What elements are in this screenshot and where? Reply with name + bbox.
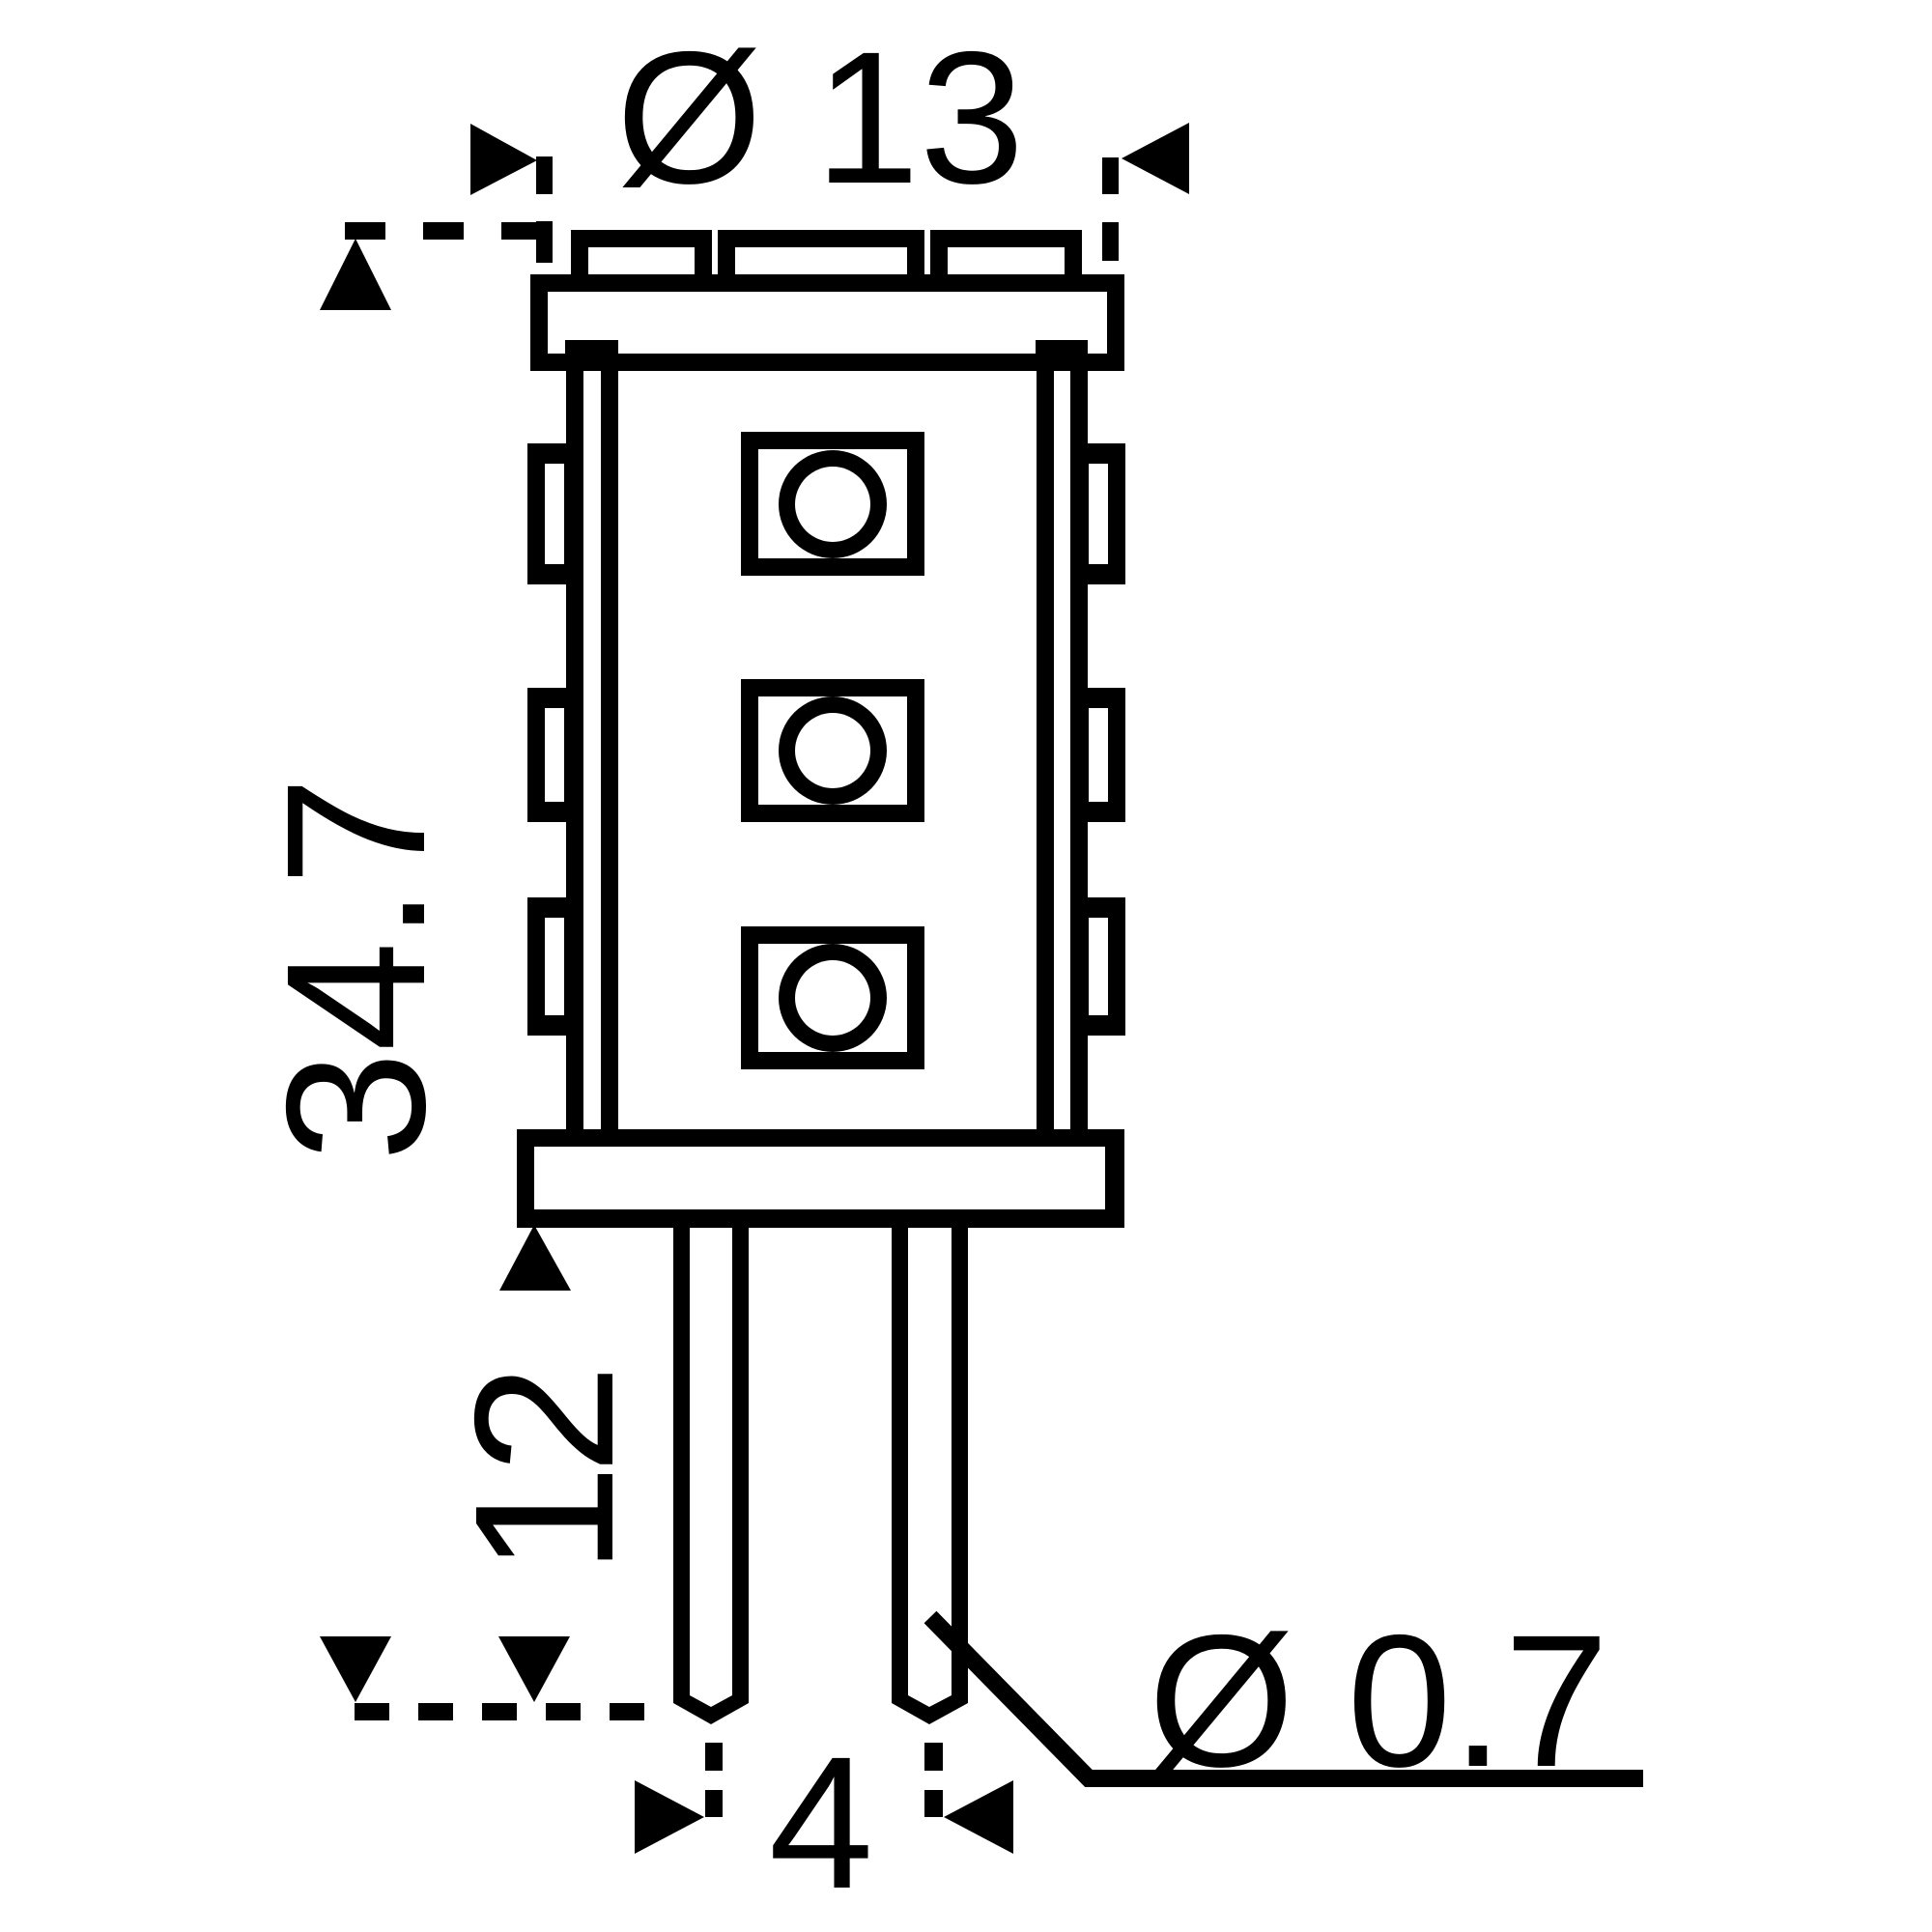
body right wall inner line: [1037, 371, 1054, 1129]
pin left centerline dashed: [705, 1743, 723, 1771]
top cap: [530, 274, 1124, 371]
top cap right junction block: [1036, 340, 1088, 371]
extension dashed line left vertical: [536, 156, 553, 194]
LED window 2 frame: [741, 679, 924, 822]
bulb top tab 1: [571, 230, 712, 292]
svg-text:Ø 13: Ø 13: [616, 13, 1025, 223]
LED window 2 circle: [779, 696, 887, 805]
side bump left 3: [527, 897, 582, 1036]
body left bottom junction block: [564, 1129, 618, 1151]
pin right centerline dashed: [924, 1743, 943, 1771]
body right wall outer line: [1070, 371, 1088, 1129]
body left wall inner line: [601, 371, 618, 1129]
LED window 3 frame: [741, 926, 924, 1069]
svg-text:4: 4: [769, 1718, 873, 1928]
dimension arrow 4 right (points left): [944, 1780, 1013, 1854]
leader line for D0.7: [930, 1617, 1643, 1778]
bottom cap: [517, 1129, 1124, 1228]
LED window 1 frame: [741, 432, 924, 576]
bulb top tab 2: [718, 230, 924, 292]
side bump left 2: [527, 688, 582, 822]
dimension arrow 12 bottom (points down): [498, 1636, 570, 1702]
dimension arrow 34.7 top (points up): [320, 239, 391, 310]
svg-text:12: 12: [434, 1374, 655, 1575]
pin left: [673, 1228, 749, 1724]
LED window 3 circle: [779, 944, 887, 1052]
svg-text:34.7: 34.7: [245, 777, 467, 1162]
svg-text:Ø 0.7: Ø 0.7: [1149, 1596, 1609, 1806]
top cap left junction block: [565, 340, 618, 371]
bulb top tab 3: [930, 230, 1082, 292]
side bump right 3: [1071, 897, 1125, 1036]
body right bottom junction block: [1037, 1129, 1088, 1151]
dimension arrow left (points right): [470, 124, 537, 195]
side bump right 1: [1071, 443, 1125, 584]
side bump left 1: [527, 443, 582, 584]
pin right: [892, 1228, 968, 1724]
top plane dashed line horizontal: [345, 222, 385, 240]
dimension arrow 4 left (points right): [635, 1780, 704, 1854]
body left wall outer line: [566, 371, 583, 1129]
LED window 1 circle: [779, 450, 887, 558]
extension dashed line right vertical: [1102, 157, 1119, 194]
dimension arrow 12 top (points up): [499, 1225, 571, 1291]
side bump right 2: [1071, 688, 1125, 822]
pin bottom plane dashed line: [355, 1703, 389, 1720]
dimension arrow right (points left): [1122, 123, 1189, 194]
dimension arrow 34.7 bottom (points down): [320, 1636, 391, 1702]
